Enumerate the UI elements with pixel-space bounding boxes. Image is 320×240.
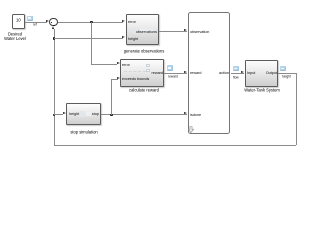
port label height <box>69 112 79 116</box>
wire: sum output to generate observations error input <box>58 22 124 23</box>
port label reward <box>133 71 163 75</box>
arrowhead into stop simulation height <box>63 112 66 114</box>
port label height <box>128 37 138 41</box>
node: branch to calculate reward <box>90 21 93 24</box>
wire: branch up at x=111.5 <box>111 79 112 115</box>
port label Output <box>247 71 277 75</box>
port label exceeds bounds <box>122 77 149 81</box>
logging badge on ref wire <box>27 16 33 21</box>
wire: branch down at x=91.5 <box>91 22 92 66</box>
port label reward <box>190 71 201 75</box>
label generate observations <box>114 49 174 54</box>
logging badge on height wire <box>280 66 286 71</box>
arrowhead into agent isdone <box>184 112 187 114</box>
net label flow <box>233 76 239 80</box>
port label stop <box>69 112 99 116</box>
wire: branch right into exceeds bounds <box>111 79 118 80</box>
node: branch to generate observations height <box>53 37 56 40</box>
preview watermark inside generate observations <box>132 28 139 35</box>
wire: branch right into calculate reward error <box>91 64 117 65</box>
wire: feedback left vertical up to sum <box>54 29 55 146</box>
node: branch to stop simulation height <box>53 114 56 117</box>
RL Agent block <box>188 12 231 134</box>
logging badge on flow wire <box>233 66 239 71</box>
wire: height branch to generate observations <box>54 38 124 39</box>
sum minus sign <box>53 25 55 26</box>
wire: reward to agent <box>164 73 187 74</box>
arrowhead into water tank Input <box>241 71 244 73</box>
arrowhead into calculate reward exceeds bounds <box>117 77 120 79</box>
wire: action to water tank <box>231 73 245 74</box>
preview watermark inside stop simulation <box>79 111 85 118</box>
port label observation <box>190 30 209 34</box>
port label isdone <box>190 113 201 117</box>
logging badge on reward wire <box>167 65 173 70</box>
constant block "Desired Water Level" <box>12 14 26 29</box>
preview watermark inside calculate reward <box>124 71 146 72</box>
arrowhead into generate observations error <box>122 20 125 22</box>
arrowhead into sum minus input <box>52 26 54 29</box>
port label error <box>122 63 130 67</box>
wire: feedback right vertical <box>296 73 297 145</box>
label calculate reward <box>114 88 174 93</box>
Water-Tank System subsystem <box>245 60 278 87</box>
arrowhead into agent reward <box>184 71 187 73</box>
wire: height branch to stop simulation <box>54 114 63 115</box>
arrowhead into sum <box>46 20 49 22</box>
value label 10 <box>16 18 21 22</box>
label Desired Water Level <box>0 32 45 41</box>
net label ref <box>33 23 37 27</box>
label Water-Tank System <box>232 88 292 93</box>
port label Input <box>247 71 255 75</box>
wire ref: constant to sum <box>25 22 47 23</box>
generate observations subsystem <box>126 14 159 45</box>
sum block <box>49 18 58 27</box>
wire: stop to agent isdone <box>101 114 188 115</box>
arrowhead into generate observations height <box>122 36 125 38</box>
arrowhead into calculate reward error <box>117 62 120 64</box>
agent icon down arrow <box>188 126 194 134</box>
port label observations <box>127 30 157 34</box>
calculate reward subsystem <box>120 59 164 87</box>
sum plus sign <box>51 22 53 23</box>
net label height <box>282 75 291 79</box>
net label reward <box>168 75 178 79</box>
stop simulation subsystem <box>66 103 100 126</box>
wire: water tank output to right edge <box>278 73 297 74</box>
port label action <box>199 71 229 75</box>
node: branch to exceeds bounds <box>110 114 113 117</box>
port label error <box>128 20 136 24</box>
wire: observations to agent <box>159 31 187 32</box>
arrowhead into agent observation <box>184 29 187 31</box>
label stop simulation <box>54 130 114 135</box>
wire: feedback bottom horizontal <box>54 145 297 146</box>
